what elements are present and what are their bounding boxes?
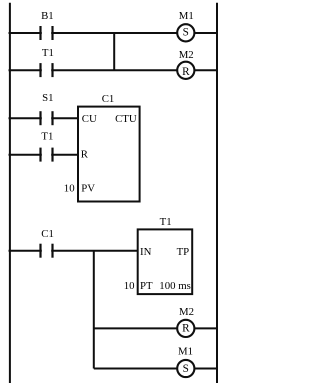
- svg-text:PT: PT: [140, 280, 153, 292]
- svg-text:S: S: [183, 26, 189, 38]
- svg-text:CU: CU: [82, 113, 97, 125]
- svg-text:100 ms: 100 ms: [159, 280, 191, 292]
- svg-text:C1: C1: [41, 228, 54, 240]
- svg-text:IN: IN: [140, 246, 152, 258]
- svg-text:TP: TP: [177, 246, 190, 258]
- svg-text:S: S: [183, 363, 189, 375]
- svg-text:M1: M1: [179, 10, 194, 22]
- svg-text:S1: S1: [42, 92, 53, 104]
- svg-text:CTU: CTU: [115, 113, 137, 125]
- svg-text:M2: M2: [179, 306, 194, 318]
- svg-text:M1: M1: [178, 346, 193, 358]
- svg-text:T1: T1: [41, 130, 53, 142]
- svg-text:B1: B1: [41, 10, 54, 22]
- svg-text:PV: PV: [81, 183, 95, 195]
- svg-text:10: 10: [124, 280, 135, 292]
- svg-text:R: R: [182, 323, 190, 335]
- svg-text:R: R: [182, 66, 190, 78]
- svg-text:T1: T1: [160, 216, 172, 228]
- svg-text:M2: M2: [179, 49, 194, 61]
- svg-text:R: R: [81, 148, 89, 160]
- svg-text:T1: T1: [42, 47, 54, 59]
- svg-text:10: 10: [64, 183, 75, 195]
- svg-text:C1: C1: [102, 93, 115, 105]
